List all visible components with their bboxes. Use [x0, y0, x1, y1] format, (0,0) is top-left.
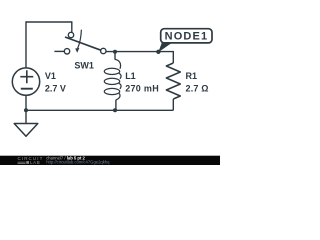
node junction dot ground [24, 108, 28, 112]
svg-text:2.7 Ω: 2.7 Ω [186, 84, 209, 94]
switch SW1 [54, 30, 106, 54]
wire R1 bottom stub [172, 99, 174, 110]
wire top rail [26, 21, 72, 23]
wire switch to node [106, 51, 173, 53]
inductor L1 [104, 52, 121, 111]
node junction dot L1 bottom [113, 108, 117, 112]
footer bar [0, 156, 220, 165]
wire R1 top stub [172, 51, 174, 63]
svg-text:LAB: LAB [30, 160, 40, 165]
footer text line 1 [46, 155, 85, 160]
ground [14, 110, 38, 136]
wire bottom rail [26, 109, 173, 111]
footer text line 2 [46, 159, 110, 164]
wire left branch V1 top [25, 21, 27, 68]
svg-text:R1: R1 [186, 71, 198, 81]
wire switch drop [71, 21, 73, 32]
node NODE1 flag [158, 29, 212, 53]
svg-text:2.7 V: 2.7 V [45, 84, 66, 94]
svg-text:L1: L1 [125, 71, 136, 81]
svg-text:V1: V1 [45, 71, 56, 81]
voltage source V1 [12, 68, 39, 95]
svg-text:NODE1: NODE1 [165, 31, 209, 43]
svg-text:270 mH: 270 mH [125, 84, 159, 94]
svg-text:SW1: SW1 [74, 60, 94, 70]
svg-text:http://circuitlab.com/c47Gge2q: http://circuitlab.com/c47Gge2qkhq [46, 159, 110, 164]
footer logo CircuitLab [18, 156, 44, 165]
resistor R1 [166, 63, 180, 99]
node junction dot L1 top [113, 50, 117, 54]
wire V1 bottom [25, 95, 27, 110]
node NODE1 junction dot [156, 50, 160, 54]
